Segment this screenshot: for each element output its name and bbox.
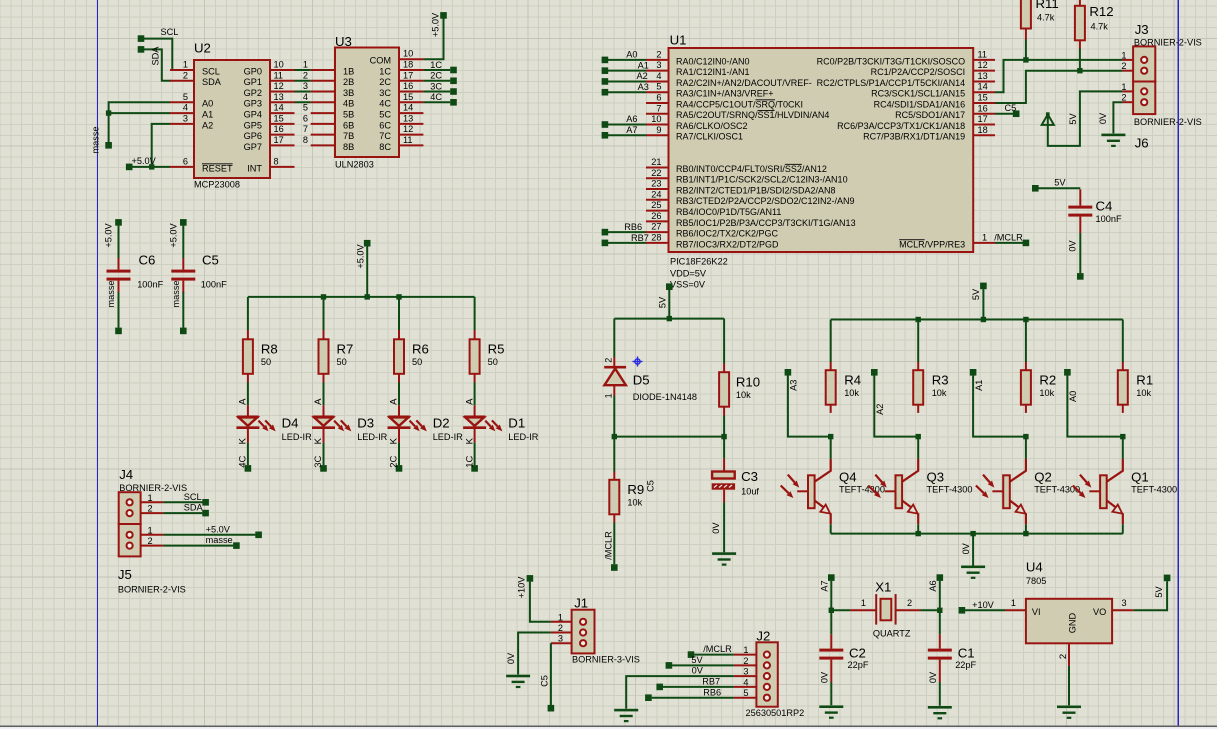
svg-text:RA6/CLKO/OSC2: RA6/CLKO/OSC2 bbox=[676, 121, 748, 131]
svg-text:6C: 6C bbox=[379, 120, 391, 130]
connector J6 BORNIER-2-VIS bbox=[1121, 82, 1201, 151]
svg-text:RB4/IOC0/P1D/T5G/AN11: RB4/IOC0/P1D/T5G/AN11 bbox=[676, 207, 781, 217]
nets A0-A3: terminals and wires to U1 RA0-RA3 bbox=[602, 50, 649, 96]
svg-text:5V: 5V bbox=[971, 288, 981, 300]
svg-text:A1: A1 bbox=[202, 109, 213, 119]
svg-text:C4: C4 bbox=[1096, 199, 1113, 214]
svg-text:MCLR/VPP/RE3: MCLR/VPP/RE3 bbox=[899, 239, 965, 249]
svg-text:2: 2 bbox=[183, 70, 188, 80]
resistor R1 10k bbox=[1118, 320, 1153, 413]
net RB7: terminal and wire to J2 pin 4 bbox=[656, 677, 734, 691]
net /MCLR: terminal and wire to J2 pin 1 bbox=[688, 644, 734, 658]
svg-text:SCL: SCL bbox=[184, 492, 202, 502]
svg-text:27: 27 bbox=[651, 222, 661, 232]
svg-text:SCL: SCL bbox=[161, 27, 179, 37]
capacitor C6 100nF with +5.0V and masse terminals bbox=[104, 219, 164, 334]
svg-text:BORNIER-2-VIS: BORNIER-2-VIS bbox=[118, 584, 186, 594]
svg-text:14: 14 bbox=[274, 103, 284, 113]
svg-text:18: 18 bbox=[403, 60, 413, 70]
svg-text:RB3/CTED2/P2A/CCP2/SDO2/C12IN2: RB3/CTED2/P2A/CCP2/SDO2/C12IN2-/AN9 bbox=[676, 196, 855, 206]
svg-text:16: 16 bbox=[978, 103, 988, 113]
svg-text:3: 3 bbox=[558, 634, 563, 644]
resistor R11 4.7k bbox=[1021, 0, 1059, 60]
svg-text:11: 11 bbox=[403, 135, 413, 145]
svg-text:14: 14 bbox=[403, 103, 413, 113]
svg-text:3: 3 bbox=[743, 667, 748, 677]
net SCL: terminal and wire to U2 pin 1 bbox=[138, 27, 179, 70]
svg-text:2C: 2C bbox=[389, 455, 400, 467]
LED D2 LED-IR bbox=[388, 383, 464, 445]
IC U3 ULN2803 bbox=[303, 34, 424, 170]
svg-text:LED-IR: LED-IR bbox=[282, 432, 312, 442]
svg-text:8B: 8B bbox=[343, 142, 354, 152]
svg-text:2: 2 bbox=[1121, 61, 1126, 71]
resistor R7 50 bbox=[319, 297, 354, 383]
svg-text:A2: A2 bbox=[875, 404, 885, 415]
ground 0V at J6 pin 2 bbox=[1098, 102, 1125, 147]
svg-text:10uf: 10uf bbox=[741, 487, 759, 497]
svg-text:SCL: SCL bbox=[202, 66, 220, 76]
svg-text:/MCLR: /MCLR bbox=[603, 531, 613, 560]
svg-text:1: 1 bbox=[604, 393, 614, 398]
net +10V: terminal and wire to U4 VI bbox=[959, 600, 1006, 614]
svg-text:C5: C5 bbox=[202, 253, 219, 268]
svg-text:A0: A0 bbox=[626, 50, 637, 60]
svg-text:VI: VI bbox=[1032, 607, 1041, 617]
svg-text:U3: U3 bbox=[335, 34, 352, 49]
net A1: terminal and wire to Q2 collector bbox=[970, 369, 1029, 439]
svg-text:RC3/SCK1/SCL1/AN15: RC3/SCK1/SCL1/AN15 bbox=[871, 89, 965, 99]
svg-text:50: 50 bbox=[412, 357, 422, 367]
svg-text:13: 13 bbox=[274, 92, 284, 102]
svg-text:16: 16 bbox=[274, 124, 284, 134]
svg-text:ULN2803: ULN2803 bbox=[335, 160, 374, 170]
svg-text:21: 21 bbox=[651, 157, 661, 167]
svg-text:R3: R3 bbox=[932, 373, 949, 388]
wire node C5 row (D5 anode / R10 / R9 / C3) bbox=[612, 434, 727, 492]
svg-text:U1: U1 bbox=[670, 32, 687, 47]
svg-text:D2: D2 bbox=[433, 415, 450, 430]
svg-text:A6: A6 bbox=[928, 580, 938, 591]
svg-text:10: 10 bbox=[651, 114, 661, 124]
svg-text:R12: R12 bbox=[1089, 4, 1113, 19]
svg-text:13: 13 bbox=[978, 71, 988, 81]
svg-text:0V: 0V bbox=[506, 652, 516, 664]
svg-text:MCP23008: MCP23008 bbox=[194, 180, 240, 190]
svg-text:5V: 5V bbox=[1154, 586, 1164, 598]
svg-text:4: 4 bbox=[743, 677, 748, 687]
svg-text:10: 10 bbox=[403, 49, 413, 59]
svg-text:0V: 0V bbox=[961, 542, 971, 554]
svg-text:GP2: GP2 bbox=[244, 88, 262, 98]
svg-text:J2: J2 bbox=[756, 628, 770, 643]
net 5V: terminal and wire to D5/R10 node bbox=[614, 283, 724, 321]
svg-text:0V: 0V bbox=[928, 671, 938, 683]
svg-text:1B: 1B bbox=[343, 66, 354, 76]
svg-text:R6: R6 bbox=[412, 342, 429, 357]
svg-text:4.7k: 4.7k bbox=[1037, 13, 1055, 23]
svg-text:C1: C1 bbox=[958, 646, 975, 661]
svg-text:RB7: RB7 bbox=[702, 677, 720, 687]
net A2: terminal and wire to Q3 collector bbox=[871, 369, 921, 439]
svg-text:A2: A2 bbox=[202, 120, 213, 130]
svg-text:10k: 10k bbox=[932, 388, 947, 398]
svg-text:24: 24 bbox=[651, 189, 661, 199]
svg-text:50: 50 bbox=[261, 357, 271, 367]
svg-text:D4: D4 bbox=[282, 415, 299, 430]
net SCL: wire and terminal from J4 pin 1 bbox=[163, 492, 209, 506]
svg-text:masse: masse bbox=[206, 535, 233, 545]
svg-text:A7: A7 bbox=[626, 125, 637, 135]
svg-text:5V: 5V bbox=[1068, 113, 1078, 125]
svg-text:A3: A3 bbox=[638, 82, 649, 92]
svg-text:2: 2 bbox=[148, 504, 153, 514]
svg-text:+10V: +10V bbox=[517, 576, 527, 599]
svg-text:RA4/CCP5/C1OUT/SRQ/T0CKI: RA4/CCP5/C1OUT/SRQ/T0CKI bbox=[676, 99, 803, 109]
net /MCLR: terminal and wire from U1 pin 1 bbox=[994, 233, 1029, 247]
svg-text:RB1/INT1/P1C/SCK2/SCL2/C12IN3-: RB1/INT1/P1C/SCK2/SCL2/C12IN3-/AN10 bbox=[676, 175, 848, 185]
svg-text:2B: 2B bbox=[343, 77, 354, 87]
svg-text:GP6: GP6 bbox=[244, 131, 262, 141]
svg-text:RC1/P2A/CCP2/SOSCI: RC1/P2A/CCP2/SOSCI bbox=[871, 67, 966, 77]
svg-text:masse: masse bbox=[106, 280, 116, 307]
svg-text:RA2/C2IN+/AN2/DACOUT/VREF-: RA2/C2IN+/AN2/DACOUT/VREF- bbox=[676, 78, 812, 88]
svg-text:SDA: SDA bbox=[151, 46, 161, 66]
svg-text:5V: 5V bbox=[691, 655, 703, 665]
svg-text:1: 1 bbox=[1121, 50, 1126, 60]
svg-text:Q3: Q3 bbox=[927, 470, 945, 485]
IC U1 PIC18F26K22 bbox=[646, 32, 995, 289]
svg-text:masse: masse bbox=[91, 126, 101, 153]
resistor R4 10k bbox=[826, 320, 861, 413]
svg-text:RB6: RB6 bbox=[703, 687, 721, 697]
svg-text:17: 17 bbox=[403, 70, 413, 80]
net +5.0V: wire and terminal from J5 pin 1 bbox=[163, 524, 262, 538]
svg-text:VO: VO bbox=[1093, 607, 1106, 617]
net /MCLR: terminal and wire from R9 bbox=[603, 523, 617, 571]
svg-text:+5.0V: +5.0V bbox=[356, 243, 366, 268]
svg-text:GP3: GP3 bbox=[244, 99, 262, 109]
net 1C: terminal and wire from D1 cathode bbox=[464, 443, 478, 472]
net 0V: terminal and wire from C4 bbox=[1068, 233, 1084, 280]
net 4C: terminal and wire from D4 cathode bbox=[238, 443, 252, 472]
svg-text:C5: C5 bbox=[540, 675, 550, 687]
svg-text:RB2/INT2/CTED1/P1B/SDI2/SDA2/A: RB2/INT2/CTED1/P1B/SDI2/SDA2/AN8 bbox=[676, 185, 836, 195]
svg-text:1: 1 bbox=[148, 525, 153, 535]
svg-text:25: 25 bbox=[651, 200, 661, 210]
svg-text:4.7k: 4.7k bbox=[1091, 22, 1109, 32]
svg-text:A6: A6 bbox=[626, 114, 637, 124]
svg-text:D1: D1 bbox=[508, 415, 525, 430]
svg-text:C5: C5 bbox=[1005, 103, 1017, 113]
svg-text:8C: 8C bbox=[379, 142, 391, 152]
svg-text:X1: X1 bbox=[875, 580, 891, 595]
net A0: terminal and wire to Q1 collector bbox=[1064, 369, 1125, 439]
svg-text:3B: 3B bbox=[343, 88, 354, 98]
net 0V: wire and ground to J2 pin 3 bbox=[614, 666, 734, 723]
svg-text:GP7: GP7 bbox=[244, 142, 262, 152]
svg-text:1: 1 bbox=[303, 60, 308, 70]
svg-text:RB6: RB6 bbox=[624, 222, 642, 232]
net +10V: terminal and wire to J1 pin 1 bbox=[517, 575, 551, 622]
svg-text:RC5/SDO1/AN17: RC5/SDO1/AN17 bbox=[895, 110, 965, 120]
svg-text:RB0/INT0/CCP4/FLT0/SRI/SS2/AN1: RB0/INT0/CCP4/FLT0/SRI/SS2/AN12 bbox=[676, 164, 827, 174]
svg-text:INT: INT bbox=[247, 163, 262, 173]
svg-text:11: 11 bbox=[274, 70, 284, 80]
svg-text:26: 26 bbox=[651, 211, 661, 221]
svg-text:4C: 4C bbox=[379, 99, 391, 109]
svg-text:22: 22 bbox=[651, 168, 661, 178]
svg-text:J6: J6 bbox=[1135, 136, 1149, 151]
svg-text:1C: 1C bbox=[430, 60, 442, 70]
net C5: terminal and wire from U1 RC5 bbox=[995, 103, 1020, 117]
svg-text:J3: J3 bbox=[1135, 22, 1149, 37]
svg-text:3: 3 bbox=[656, 60, 661, 70]
connector J2 25630501RP2 bbox=[734, 628, 804, 718]
net 5V: terminal and wire from U4 VO bbox=[1134, 575, 1171, 611]
resistor R3 10k bbox=[913, 320, 948, 413]
svg-text:BORNIER-2-VIS: BORNIER-2-VIS bbox=[119, 483, 187, 493]
svg-text:RB7: RB7 bbox=[631, 233, 649, 243]
svg-text:BORNIER-2-VIS: BORNIER-2-VIS bbox=[1134, 38, 1202, 48]
svg-text:A1: A1 bbox=[638, 60, 649, 70]
svg-text:D3: D3 bbox=[357, 415, 374, 430]
svg-text:RB7/IOC3/RX2/DT2/PGD: RB7/IOC3/RX2/DT2/PGD bbox=[676, 239, 779, 249]
svg-text:VSS=0V: VSS=0V bbox=[670, 279, 706, 289]
svg-text:R5: R5 bbox=[488, 342, 505, 357]
svg-text:TEFT-4300: TEFT-4300 bbox=[1131, 485, 1177, 495]
ground 0V at emitter bus bbox=[961, 534, 985, 579]
svg-text:R8: R8 bbox=[261, 342, 278, 357]
svg-text:R2: R2 bbox=[1039, 373, 1056, 388]
transistor Q4 TEFT-4300 (phototransistor) bbox=[781, 437, 885, 534]
resistor R12 4.7k bbox=[1075, 0, 1114, 71]
svg-text:1C: 1C bbox=[379, 66, 391, 76]
net SDA: wire and terminal from J4 pin 2 bbox=[163, 503, 209, 517]
svg-text:BORNIER-2-VIS: BORNIER-2-VIS bbox=[1134, 117, 1202, 127]
net 5V: terminal and supply bus for R1-R4 bbox=[831, 283, 1123, 323]
svg-text:3C: 3C bbox=[379, 88, 391, 98]
svg-text:C6: C6 bbox=[139, 253, 156, 268]
svg-text:TEFT-4300: TEFT-4300 bbox=[927, 485, 973, 495]
svg-text:17: 17 bbox=[978, 114, 988, 124]
emitter ground bus bbox=[831, 531, 1123, 536]
svg-text:J5: J5 bbox=[118, 567, 132, 582]
svg-text:1C: 1C bbox=[464, 455, 475, 467]
nets A6,A7: terminals and wires to U1 RA6,RA7 bbox=[602, 114, 646, 138]
svg-text:11: 11 bbox=[978, 49, 988, 59]
svg-text:2: 2 bbox=[907, 598, 912, 608]
svg-text:LED-IR: LED-IR bbox=[433, 432, 463, 442]
net 5V: terminal and wire to capacitor C4 bbox=[1032, 178, 1080, 192]
svg-text:100nF: 100nF bbox=[201, 280, 227, 290]
svg-text:10k: 10k bbox=[844, 388, 859, 398]
capacitor C1 22pF with A6 terminal and ground bbox=[928, 574, 977, 719]
svg-text:6: 6 bbox=[183, 156, 188, 166]
capacitor C2 22pF with A7 terminal and ground bbox=[819, 574, 869, 719]
svg-text:0V: 0V bbox=[1068, 240, 1078, 252]
svg-text:A1: A1 bbox=[974, 380, 984, 391]
svg-text:15: 15 bbox=[978, 92, 988, 102]
svg-text:15: 15 bbox=[274, 113, 284, 123]
svg-text:J1: J1 bbox=[574, 595, 588, 610]
svg-text:7: 7 bbox=[656, 103, 661, 113]
resistor R5 50 bbox=[470, 297, 505, 383]
svg-text:D5: D5 bbox=[633, 373, 650, 388]
svg-text:A2: A2 bbox=[637, 71, 648, 81]
resistor R8 50 bbox=[243, 297, 278, 383]
svg-text:/MCLR: /MCLR bbox=[994, 233, 1023, 243]
svg-text:15: 15 bbox=[403, 92, 413, 102]
regulator U4 7805 bbox=[1006, 560, 1134, 666]
diode D5 DIODE-1N4148 bbox=[604, 319, 698, 437]
svg-text:3C: 3C bbox=[313, 455, 324, 467]
IC U2 MCP23008 bbox=[170, 41, 295, 190]
svg-text:2C: 2C bbox=[379, 77, 391, 87]
svg-text:A: A bbox=[238, 398, 249, 405]
svg-text:10k: 10k bbox=[736, 390, 751, 400]
svg-text:50: 50 bbox=[337, 357, 347, 367]
svg-text:R7: R7 bbox=[337, 342, 354, 357]
power arrow 5V and wire to J6 pin 1 bbox=[1042, 91, 1123, 145]
svg-text:22pF: 22pF bbox=[955, 660, 976, 670]
svg-text:0V: 0V bbox=[711, 522, 721, 534]
svg-text:100nF: 100nF bbox=[1096, 214, 1122, 224]
svg-text:QUARTZ: QUARTZ bbox=[873, 629, 911, 639]
svg-text:2: 2 bbox=[558, 623, 563, 633]
svg-text:+5.0V: +5.0V bbox=[431, 12, 441, 37]
transistor Q1 TEFT-4300 (phototransistor) bbox=[1073, 437, 1177, 534]
svg-text:12: 12 bbox=[403, 124, 413, 134]
svg-text:3: 3 bbox=[303, 81, 308, 91]
svg-text:BORNIER-3-VIS: BORNIER-3-VIS bbox=[572, 655, 640, 665]
svg-text:28: 28 bbox=[651, 232, 661, 242]
svg-text:5C: 5C bbox=[379, 109, 391, 119]
svg-text:SDA: SDA bbox=[202, 77, 222, 87]
LED D3 LED-IR bbox=[312, 383, 388, 445]
svg-text:5: 5 bbox=[656, 82, 661, 92]
svg-text:VDD=5V: VDD=5V bbox=[670, 269, 707, 279]
svg-text:1: 1 bbox=[148, 493, 153, 503]
svg-text:RC7/P3B/RX1/DT1/AN19: RC7/P3B/RX1/DT1/AN19 bbox=[863, 132, 965, 142]
svg-text:9: 9 bbox=[656, 125, 661, 135]
net RB6: terminal and wire to J2 pin 5 bbox=[645, 687, 734, 701]
svg-text:C2: C2 bbox=[849, 646, 866, 661]
svg-text:18: 18 bbox=[978, 125, 988, 135]
svg-text:6: 6 bbox=[303, 113, 308, 123]
svg-text:2: 2 bbox=[1058, 654, 1069, 659]
svg-text:4C: 4C bbox=[430, 92, 442, 102]
svg-text:+5.0V: +5.0V bbox=[104, 222, 114, 247]
svg-text:PIC18F26K22: PIC18F26K22 bbox=[670, 256, 728, 266]
net 2C: terminal and wire from D2 cathode bbox=[389, 443, 403, 472]
svg-text:RA5/C2OUT/SRNQ/SS1/HLVDIN/AN4: RA5/C2OUT/SRNQ/SS1/HLVDIN/AN4 bbox=[676, 110, 829, 120]
svg-text:13: 13 bbox=[403, 113, 413, 123]
svg-text:5B: 5B bbox=[343, 109, 354, 119]
capacitor C4 100nF bbox=[1068, 189, 1122, 233]
net +5.0V: terminal and supply bus for R5-R8 bbox=[248, 240, 475, 300]
wire U1 RC4 to J3 pin 2 (with junction at R12) bbox=[995, 68, 1122, 103]
svg-text:+5.0V: +5.0V bbox=[206, 524, 231, 534]
svg-text:6B: 6B bbox=[343, 120, 354, 130]
svg-text:3: 3 bbox=[1122, 598, 1127, 608]
svg-text:RC4/SDI1/SDA1/AN16: RC4/SDI1/SDA1/AN16 bbox=[874, 99, 966, 109]
resistor R2 10k bbox=[1021, 320, 1056, 413]
svg-text:2: 2 bbox=[656, 49, 661, 59]
svg-text:+5.0V: +5.0V bbox=[168, 222, 178, 247]
svg-text:RA0/C12IN0-/AN0: RA0/C12IN0-/AN0 bbox=[676, 56, 750, 66]
svg-text:SDA: SDA bbox=[184, 503, 204, 513]
svg-text:A7: A7 bbox=[820, 580, 830, 591]
svg-text:+10V: +10V bbox=[972, 600, 995, 610]
net masse: terminal and wires to U2 pins A0/A1 bbox=[91, 102, 171, 153]
svg-text:A0: A0 bbox=[202, 99, 213, 109]
svg-text:22pF: 22pF bbox=[848, 660, 869, 670]
svg-text:A: A bbox=[389, 398, 400, 405]
svg-text:23: 23 bbox=[651, 179, 661, 189]
svg-text:10k: 10k bbox=[1136, 388, 1151, 398]
svg-text:25630501RP2: 25630501RP2 bbox=[746, 708, 805, 718]
svg-text:2C: 2C bbox=[430, 71, 442, 81]
svg-text:50: 50 bbox=[488, 357, 498, 367]
svg-text:5V: 5V bbox=[1054, 178, 1066, 188]
svg-text:0V: 0V bbox=[1098, 112, 1108, 124]
crystal X1 QUARTZ bbox=[831, 580, 940, 639]
svg-text:10k: 10k bbox=[627, 498, 642, 508]
svg-text:4C: 4C bbox=[238, 455, 249, 467]
svg-text:7805: 7805 bbox=[1026, 576, 1046, 586]
svg-text:Q2: Q2 bbox=[1034, 470, 1052, 485]
svg-text:RA3/C1IN+/AN3/VREF+: RA3/C1IN+/AN3/VREF+ bbox=[676, 89, 774, 99]
ground 0V at C3 bbox=[711, 503, 736, 566]
svg-text:1: 1 bbox=[558, 612, 563, 622]
svg-text:1: 1 bbox=[743, 645, 748, 655]
svg-text:RC2/CTPLS/P1A/CCP1/T5CKI/AN14: RC2/CTPLS/P1A/CCP1/T5CKI/AN14 bbox=[817, 78, 966, 88]
svg-text:R11: R11 bbox=[1036, 0, 1059, 11]
svg-text:GP0: GP0 bbox=[244, 66, 262, 76]
svg-text:6: 6 bbox=[656, 92, 661, 102]
svg-text:100nF: 100nF bbox=[137, 280, 163, 290]
svg-text:C3: C3 bbox=[741, 469, 758, 484]
svg-text:J4: J4 bbox=[119, 467, 133, 482]
resistor R6 50 bbox=[394, 297, 429, 383]
svg-text:12: 12 bbox=[978, 60, 988, 70]
svg-text:10: 10 bbox=[274, 60, 284, 70]
svg-text:1: 1 bbox=[861, 598, 866, 608]
svg-text:U2: U2 bbox=[194, 41, 211, 56]
svg-text:LED-IR: LED-IR bbox=[508, 432, 538, 442]
net 3C: terminal and wire from D3 cathode bbox=[313, 443, 327, 472]
connector J5 BORNIER-2-VIS bbox=[118, 524, 186, 594]
svg-text:RA1/C12IN1-/AN1: RA1/C12IN1-/AN1 bbox=[676, 67, 750, 77]
svg-text:1: 1 bbox=[982, 232, 987, 242]
svg-text:Q1: Q1 bbox=[1131, 470, 1149, 485]
LED D4 LED-IR bbox=[236, 383, 312, 445]
transistor Q2 TEFT-4300 (phototransistor) bbox=[976, 437, 1080, 534]
svg-text:DIODE-1N4148: DIODE-1N4148 bbox=[633, 392, 697, 402]
svg-text:RC6/P3A/CCP3/TX1/CK1/AN18: RC6/P3A/CCP3/TX1/CK1/AN18 bbox=[837, 121, 965, 131]
wires U2 GP0-GP3 to U3 1B-4B bbox=[295, 70, 311, 102]
ground 0V at J1 pin 2 bbox=[506, 633, 551, 689]
svg-text:2: 2 bbox=[743, 656, 748, 666]
svg-text:12: 12 bbox=[274, 81, 284, 91]
svg-text:A: A bbox=[313, 398, 324, 405]
svg-text:GND: GND bbox=[1067, 612, 1077, 633]
capacitor C3 10uf (polarized) bbox=[712, 437, 760, 503]
svg-text:2: 2 bbox=[303, 70, 308, 80]
svg-text:A3: A3 bbox=[789, 380, 799, 391]
svg-text:GP1: GP1 bbox=[244, 77, 262, 87]
